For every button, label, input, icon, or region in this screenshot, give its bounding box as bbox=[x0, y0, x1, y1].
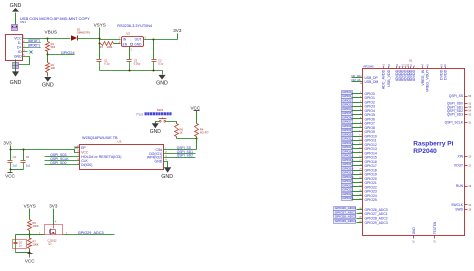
svg-text:200K: 200K bbox=[33, 224, 39, 228]
svg-text:Raspberry Pi: Raspberry Pi bbox=[413, 140, 453, 147]
resistor R4 NO-FIT bbox=[195, 124, 210, 137]
switch SW1 bbox=[136, 108, 172, 122]
svg-text:GND: GND bbox=[161, 174, 173, 180]
USB connector CN1 bbox=[6, 35, 28, 61]
net GPIO29_ADC3 bbox=[334, 219, 388, 225]
capacitor C4 bbox=[8, 150, 18, 170]
svg-text:CN1: CN1 bbox=[20, 20, 26, 24]
svg-text:VCC: VCC bbox=[5, 174, 15, 179]
wire 3V3 rail bbox=[10, 149, 80, 153]
capacitor C5 bbox=[21, 150, 31, 170]
wire bbox=[15, 13, 17, 25]
svg-text:QSPI_SCLK: QSPI_SCLK bbox=[445, 121, 464, 125]
svg-text:VREG_IN: VREG_IN bbox=[421, 69, 425, 85]
net GPIO18 bbox=[342, 166, 377, 172]
svg-text:C4: C4 bbox=[13, 155, 17, 159]
svg-text:U1: U1 bbox=[409, 58, 413, 62]
wire switch right to R6 bbox=[166, 122, 177, 124]
svg-text:IOVDD: IOVDD bbox=[412, 69, 416, 81]
svg-text:USB CON MICRO-5P-MID-MNT COPY: USB CON MICRO-5P-MID-MNT COPY bbox=[20, 16, 90, 21]
pin ADC_AVDD bbox=[381, 64, 385, 90]
svg-text:5K6: 5K6 bbox=[51, 45, 56, 49]
net GPIO13 bbox=[342, 145, 377, 151]
shield pads MH bbox=[13, 63, 19, 69]
capacitor C2 bbox=[152, 40, 164, 71]
svg-text:0.01μ: 0.01μ bbox=[134, 61, 141, 65]
pin QSPI_SD3 bbox=[447, 113, 472, 117]
resistor R3 100k bbox=[99, 42, 120, 50]
net label GPIO24 bbox=[48, 51, 75, 55]
wire switch left to ground bbox=[156, 122, 160, 124]
svg-text:23: 23 bbox=[439, 64, 443, 67]
mcu U1 RP2040 bbox=[363, 58, 465, 235]
net GPIO14 bbox=[342, 149, 377, 155]
svg-text:VCC: VCC bbox=[190, 105, 200, 110]
pin QSPI_SD2 bbox=[447, 109, 472, 113]
net VCC flag below caps bbox=[5, 170, 15, 179]
capacitor C3 bbox=[127, 47, 141, 71]
wire D- to label bbox=[28, 42, 41, 44]
transistor Q1 CJ1012 bbox=[45, 225, 63, 246]
wire VBUS rail from VCC pin bbox=[28, 38, 71, 40]
pin GND flash bbox=[155, 159, 168, 168]
svg-text:QSPI_SS: QSPI_SS bbox=[449, 94, 464, 98]
ground below regulator bbox=[156, 71, 168, 87]
pin SWD bbox=[455, 208, 472, 212]
svg-text:RUN: RUN bbox=[456, 184, 464, 188]
diode D1 bbox=[71, 27, 91, 40]
svg-text:GND: GND bbox=[14, 55, 22, 59]
pin GND bottom bbox=[412, 227, 416, 243]
svg-text:2u2: 2u2 bbox=[26, 163, 31, 167]
svg-text:48: 48 bbox=[387, 64, 391, 67]
svg-text:100K: 100K bbox=[33, 243, 39, 247]
net label GPIO29_ADC3 bbox=[78, 231, 104, 235]
svg-text:VCC: VCC bbox=[14, 36, 22, 40]
regulator U2 RS3236 bbox=[117, 24, 152, 52]
svg-text:2u2: 2u2 bbox=[13, 163, 18, 167]
net GPIO1 bbox=[342, 94, 375, 100]
net GPIO27_ADC1 bbox=[334, 210, 388, 216]
svg-text:VCC: VCC bbox=[25, 258, 35, 263]
wire GND pin route bbox=[16, 57, 30, 65]
svg-text:GPIO29_ADC3: GPIO29_ADC3 bbox=[78, 231, 104, 235]
wire regulator OUT to 3V3 bbox=[144, 39, 178, 41]
svg-text:DP_A5: DP_A5 bbox=[29, 45, 37, 48]
net GPIO6 bbox=[342, 115, 375, 121]
pin CLK bbox=[45, 157, 89, 163]
ground below flash bbox=[161, 167, 173, 180]
net GPIO8 bbox=[342, 124, 375, 130]
net VCC flag at R4 bbox=[190, 105, 200, 123]
net GPIO10 bbox=[342, 132, 377, 138]
svg-text:USB_DM: USB_DM bbox=[365, 80, 379, 84]
pin XIN bbox=[458, 155, 472, 159]
net GPIO4 bbox=[342, 107, 375, 113]
net label DM bbox=[29, 40, 40, 44]
net GPIO26_ADC0 bbox=[334, 206, 388, 212]
capacitor C6 NO-FIT bbox=[13, 235, 27, 253]
node VSYS junction bbox=[99, 38, 101, 40]
pin VREG_VOUT bbox=[425, 64, 429, 92]
svg-text:45: 45 bbox=[425, 64, 429, 67]
svg-text:GND: GND bbox=[156, 81, 168, 87]
label USB CON MICRO-5P-MID-MNT COPY bbox=[20, 16, 90, 24]
no-connect ID pin bbox=[30, 51, 33, 54]
pin HOLD RESET IO3 bbox=[45, 153, 122, 159]
svg-text:GPIO29_ADC3: GPIO29_ADC3 bbox=[335, 219, 356, 223]
wire ground rail bbox=[100, 70, 163, 72]
pin IOVDD bbox=[409, 64, 413, 82]
svg-text:3V3: 3V3 bbox=[49, 204, 58, 209]
pin DI IO0 bbox=[45, 161, 93, 167]
net GPIO16 bbox=[342, 158, 377, 164]
svg-text:QSPI_SD3: QSPI_SD3 bbox=[447, 113, 463, 117]
wire bbox=[47, 55, 49, 63]
text Raspberry Pi RP2040 bbox=[413, 140, 453, 155]
wire node to left bbox=[16, 231, 31, 236]
pin USB_DP bbox=[352, 74, 379, 80]
wire resistors to QSPI_SS bbox=[177, 137, 198, 150]
wire bbox=[47, 52, 49, 56]
pin IOVDD bbox=[412, 65, 416, 81]
net GPIO3 bbox=[342, 103, 375, 109]
resistor R1 bbox=[46, 42, 56, 52]
svg-text:NO-FIT: NO-FIT bbox=[200, 130, 209, 134]
pin DVDD bbox=[439, 64, 443, 80]
pin USB_VDD bbox=[387, 64, 391, 87]
svg-text:U2: U2 bbox=[126, 31, 130, 35]
wire bbox=[78, 38, 100, 40]
svg-text:43: 43 bbox=[381, 64, 385, 67]
svg-text:GND: GND bbox=[10, 80, 22, 86]
pin VCC bbox=[78, 149, 89, 154]
capacitor C1 bbox=[97, 44, 110, 71]
pin WP IO2 bbox=[147, 154, 196, 160]
svg-text:D+: D+ bbox=[17, 45, 22, 49]
net GPIO19 bbox=[342, 171, 377, 177]
svg-text:SM4007PL: SM4007PL bbox=[77, 30, 91, 34]
resistor R7 100K bbox=[28, 235, 39, 249]
pin SWCLK bbox=[451, 203, 472, 207]
svg-text:GPIO29_ADC3: GPIO29_ADC3 bbox=[365, 221, 388, 225]
net VSYS flag bottom bbox=[24, 204, 36, 220]
svg-text:VSYS: VSYS bbox=[24, 204, 36, 209]
net GPIO25 bbox=[342, 196, 377, 202]
svg-text:0.1μ: 0.1μ bbox=[158, 61, 164, 65]
svg-text:XOUT: XOUT bbox=[454, 164, 463, 168]
svg-text:TESTEN: TESTEN bbox=[433, 221, 437, 234]
pin USB_DM bbox=[352, 78, 379, 85]
svg-text:OUT: OUT bbox=[135, 38, 142, 42]
flash U3 W25Q16 bbox=[80, 136, 164, 170]
svg-text:W25Q16FWUXIE TB: W25Q16FWUXIE TB bbox=[82, 136, 118, 140]
svg-text:EN: EN bbox=[123, 43, 128, 47]
svg-text:3V3: 3V3 bbox=[3, 140, 12, 145]
net GPIO17 bbox=[342, 162, 377, 168]
pin DO IO1 bbox=[149, 150, 195, 156]
svg-text:SW1: SW1 bbox=[157, 108, 164, 112]
net VSYS flag bbox=[94, 23, 106, 39]
svg-text:VBUS: VBUS bbox=[45, 30, 58, 35]
svg-text:GND: GND bbox=[150, 129, 162, 135]
net GPIO15 bbox=[342, 154, 377, 160]
resistor R2 bbox=[46, 63, 56, 73]
svg-text:GND: GND bbox=[412, 227, 416, 235]
svg-text:USB_VDD: USB_VDD bbox=[387, 69, 391, 86]
net GPIO21 bbox=[342, 179, 377, 185]
net label DP bbox=[29, 45, 40, 48]
net GPIO20 bbox=[342, 175, 377, 181]
svg-text:100k: 100k bbox=[107, 45, 113, 49]
svg-text:GND: GND bbox=[134, 43, 142, 47]
net GPIO2 bbox=[342, 98, 375, 104]
svg-text:44: 44 bbox=[421, 64, 425, 67]
svg-text:EP: EP bbox=[81, 146, 86, 150]
svg-text:QSPI_SD2: QSPI_SD2 bbox=[177, 154, 193, 158]
net GPIO12 bbox=[342, 141, 377, 147]
net VCC flag bottom bbox=[25, 254, 35, 264]
pin EP no-connect bbox=[75, 145, 87, 150]
pin IOVDD bbox=[406, 64, 410, 82]
pin TESTEN bbox=[433, 221, 437, 243]
pin DVDD bbox=[443, 64, 447, 80]
pin IOVDD bbox=[401, 64, 405, 82]
svg-text:Q1: Q1 bbox=[48, 242, 52, 246]
pin IOVDD bbox=[398, 65, 402, 81]
net GPIO11 bbox=[342, 137, 377, 143]
svg-text:VSYS: VSYS bbox=[94, 23, 106, 28]
svg-text:VCC: VCC bbox=[81, 150, 89, 154]
svg-text:QSPI_SD0: QSPI_SD0 bbox=[50, 161, 66, 165]
svg-text:C5: C5 bbox=[26, 155, 30, 159]
svg-text:0.1μ: 0.1μ bbox=[104, 61, 110, 65]
wire to regulator IN bbox=[99, 39, 121, 45]
net GPIO22 bbox=[342, 183, 377, 189]
svg-text:DI(IO0): DI(IO0) bbox=[81, 163, 92, 167]
ground below R2 bbox=[42, 73, 54, 89]
wire D+ to label bbox=[28, 47, 41, 49]
svg-text:U3: U3 bbox=[118, 139, 122, 143]
ground at USB shield bbox=[10, 71, 22, 86]
net 3V3 flag bbox=[173, 28, 182, 39]
net GPIO23 bbox=[342, 188, 377, 194]
resistor R6 1k bbox=[175, 124, 184, 137]
svg-text:GND: GND bbox=[42, 83, 54, 89]
svg-text:GND: GND bbox=[10, 3, 22, 9]
wire GPIO29 net bbox=[63, 232, 115, 235]
svg-text:VREG_VOUT: VREG_VOUT bbox=[426, 69, 430, 92]
svg-text:RP2040: RP2040 bbox=[413, 148, 437, 155]
ground flag at USB VCC top bbox=[10, 3, 22, 12]
net GPIO5 bbox=[342, 111, 375, 117]
svg-text:GPIO25: GPIO25 bbox=[365, 198, 377, 202]
svg-text:DM_A6: DM_A6 bbox=[29, 40, 38, 43]
pin QSPI_SD1 bbox=[447, 105, 472, 109]
wire bottom join bbox=[16, 249, 31, 254]
pin XOUT bbox=[454, 164, 472, 168]
node VBUS bbox=[45, 30, 58, 40]
ground at SW1 bbox=[150, 123, 162, 135]
wire bbox=[15, 60, 17, 72]
svg-text:GPIO24: GPIO24 bbox=[61, 51, 75, 55]
net GPIO0 bbox=[342, 90, 375, 96]
pin IOVDD bbox=[403, 64, 407, 82]
svg-text:ADC_AVDD: ADC_AVDD bbox=[382, 69, 386, 89]
svg-text:10K: 10K bbox=[51, 66, 56, 70]
fuse F1 bbox=[12, 25, 18, 31]
pin QSPI_SS bbox=[449, 94, 472, 98]
svg-text:RP2040: RP2040 bbox=[364, 64, 375, 68]
svg-text:GND: GND bbox=[155, 160, 163, 164]
wire bbox=[47, 39, 49, 42]
svg-text:ID: ID bbox=[18, 50, 22, 54]
net GPIO9 bbox=[342, 128, 375, 134]
svg-text:50: 50 bbox=[443, 64, 447, 67]
pin IOVDD bbox=[395, 64, 399, 82]
wire node to transistor bbox=[30, 232, 45, 235]
svg-text:SWD: SWD bbox=[455, 208, 463, 212]
pin QSPI_SCLK bbox=[445, 121, 472, 125]
resistor R5 200K bbox=[28, 220, 39, 231]
pin RUN bbox=[456, 184, 472, 188]
svg-text:RS3236-3.3YUT0N4: RS3236-3.3YUT0N4 bbox=[117, 24, 152, 28]
pin CS bbox=[156, 146, 197, 152]
pin VREG_IN bbox=[421, 64, 425, 86]
svg-text:XIN: XIN bbox=[458, 155, 464, 159]
net GPIO7 bbox=[342, 120, 375, 126]
svg-text:DVDD: DVDD bbox=[443, 69, 447, 80]
wire bbox=[10, 169, 24, 171]
pin QSPI_SD0 bbox=[447, 102, 472, 106]
net GPIO28_ADC2 bbox=[334, 215, 388, 221]
net 3V3 flag flash bbox=[3, 140, 12, 149]
svg-text:3V3: 3V3 bbox=[173, 28, 182, 33]
net 3V3 flag at Q1 bbox=[49, 204, 58, 225]
svg-text:R3: R3 bbox=[99, 45, 103, 49]
net GPIO24 bbox=[342, 192, 377, 198]
svg-text:7*2.5: 7*2.5 bbox=[136, 112, 143, 116]
